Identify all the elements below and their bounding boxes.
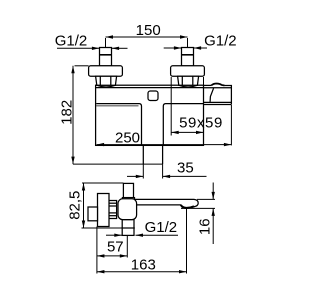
dim 59 line (171, 131, 203, 134)
dim 182 (71, 66, 162, 164)
svg-text:250: 250 (115, 129, 140, 146)
top-center square detail (148, 91, 158, 101)
dim 163 (97, 208, 187, 273)
svg-text:35: 35 (177, 160, 194, 177)
body bar (front view mixer body) (96, 85, 204, 145)
right hex nut (178, 76, 199, 87)
left inlet pipe (100, 48, 112, 66)
lower connection (121, 220, 134, 236)
handle (side view top rect) (123, 183, 133, 197)
dim 35 (127, 164, 207, 178)
spout front view (right end) (204, 84, 232, 105)
dim 82,5 (82, 183, 124, 228)
outlet drop piece (front view bottom center) (143, 145, 162, 164)
label G1/2 top-left with leader (57, 47, 128, 50)
right flange (171, 66, 205, 76)
svg-text:16: 16 (197, 218, 214, 235)
svg-text:163: 163 (131, 257, 156, 274)
left hex nut (96, 76, 117, 87)
wall escutcheon (98, 194, 110, 227)
handle flange strip (122, 198, 134, 201)
dim 150 (106, 35, 188, 47)
svg-text:G1/2: G1/2 (145, 219, 178, 236)
label G1/2 bottom with leader (106, 234, 178, 237)
svg-text:182: 182 (58, 100, 75, 125)
svg-text:82,5: 82,5 (66, 191, 83, 220)
valve body (side view) (118, 199, 137, 220)
svg-text:57: 57 (107, 238, 124, 255)
side hex nut (109, 201, 117, 219)
right inlet pipe (182, 48, 194, 66)
label G1/2 top-right with leader (164, 46, 207, 49)
dim 250 (97, 105, 232, 146)
dim 59x59 extension lines (170, 77, 172, 136)
side spout with mouth (131, 199, 198, 208)
wall nipple (88, 207, 98, 221)
svg-text:G1/2: G1/2 (55, 33, 88, 50)
dim 16 (181, 183, 215, 245)
dim 57 (97, 227, 127, 274)
svg-text:G1/2: G1/2 (204, 32, 237, 49)
left flange (89, 66, 123, 76)
svg-text:150: 150 (136, 22, 161, 39)
svg-text:59x59: 59x59 (179, 114, 223, 131)
